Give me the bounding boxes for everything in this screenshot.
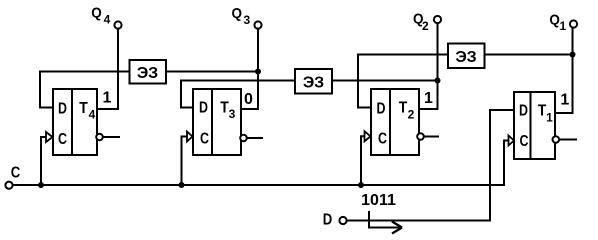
wire EZ1 output to T4 D input — [40, 72, 130, 108]
wire C branch to T4 — [41, 137, 46, 185]
flip-flop T1 — [514, 92, 555, 159]
wire C clock bus — [13, 141, 509, 186]
svg-text:D: D — [519, 103, 528, 120]
svg-text:3: 3 — [229, 107, 236, 121]
wire C branch to T2 — [361, 136, 365, 185]
wire C branch to T3 — [182, 137, 188, 186]
junction node Q3 / EZ1 — [255, 69, 261, 75]
value label 1011 — [361, 192, 396, 209]
flip-flop T4 — [53, 89, 97, 155]
T2 state label 1 — [424, 90, 433, 107]
svg-text:C: C — [520, 133, 529, 150]
T1 inverted output circle and stub — [553, 136, 578, 143]
wire D serial input to T1 D — [347, 110, 514, 221]
terminal Q3 — [231, 5, 261, 29]
T4 inverted output circle and stub — [96, 134, 120, 141]
svg-text:4: 4 — [89, 108, 96, 122]
svg-text:Q: Q — [91, 4, 102, 21]
wire T1 Q output to terminal Q1 — [555, 28, 573, 113]
junction C bus / T3 — [179, 182, 185, 188]
svg-text:0: 0 — [244, 91, 253, 108]
svg-text:D: D — [323, 211, 333, 228]
svg-text:ЭЗ: ЭЗ — [137, 65, 158, 82]
T2 inverted output circle and stub — [417, 133, 439, 140]
junction C bus / T2 — [358, 182, 364, 188]
wire EZ1 input from Q3 node — [166, 71, 258, 73]
svg-text:C: C — [200, 131, 209, 148]
data direction arrow — [369, 211, 402, 234]
wire T2 Q output to terminal Q2 — [419, 23, 438, 109]
svg-text:T: T — [399, 100, 408, 117]
svg-text:1: 1 — [103, 90, 112, 107]
svg-text:1: 1 — [560, 92, 569, 109]
T1 state label 1 — [560, 92, 569, 109]
svg-text:2: 2 — [422, 19, 429, 33]
wire EZ3 output to T2 D input — [358, 55, 448, 108]
svg-text:4: 4 — [104, 13, 111, 27]
terminal D — [323, 211, 347, 228]
flip-flop T3 — [193, 89, 241, 155]
junction node Q1 / EZ3 — [570, 52, 576, 58]
svg-text:D: D — [199, 100, 208, 117]
delay element EZ3 — [448, 44, 485, 69]
svg-text:3: 3 — [243, 13, 250, 27]
wire EZ3 input from Q1 node — [485, 54, 573, 56]
delay element EZ2 — [295, 69, 332, 94]
svg-text:C: C — [58, 131, 67, 148]
T2 dynamic C input triangle — [365, 131, 371, 141]
svg-text:2: 2 — [408, 108, 415, 122]
svg-text:T: T — [79, 100, 88, 117]
T3 inverted output circle and stub — [240, 135, 263, 142]
terminal C — [5, 165, 20, 189]
terminal Q1 — [549, 12, 577, 33]
T1 dynamic C input triangle — [509, 136, 515, 146]
svg-text:D: D — [58, 101, 67, 118]
junction node Q2 / EZ2 — [435, 78, 441, 84]
svg-text:C: C — [11, 165, 21, 182]
wire EZ2 input from Q2 node — [332, 80, 437, 82]
svg-text:C: C — [378, 131, 387, 148]
T4 dynamic C input triangle — [46, 132, 53, 142]
svg-text:1: 1 — [559, 19, 566, 33]
svg-text:1: 1 — [424, 90, 433, 107]
svg-text:ЭЗ: ЭЗ — [303, 74, 324, 91]
svg-text:Q: Q — [231, 5, 242, 22]
terminal Q2 — [413, 10, 441, 33]
wire T4 Q output to terminal Q4 — [97, 29, 118, 109]
T3 dynamic C input triangle — [187, 132, 193, 142]
svg-text:T: T — [220, 100, 229, 117]
svg-text:1011: 1011 — [361, 192, 396, 209]
delay element EZ1 — [130, 60, 167, 84]
terminal Q4 — [91, 4, 121, 28]
wire T3 Q output to terminal Q3 — [241, 29, 258, 109]
T3 state label 0 — [244, 91, 253, 108]
svg-text:1: 1 — [546, 111, 553, 125]
svg-text:ЭЗ: ЭЗ — [455, 49, 476, 66]
svg-text:D: D — [377, 101, 386, 118]
T4 state label 1 — [103, 90, 112, 107]
wire EZ2 output to T3 D input — [181, 81, 295, 108]
flip-flop T2 — [371, 89, 419, 155]
svg-text:T: T — [538, 103, 547, 120]
junction C bus / T4 — [38, 182, 44, 188]
